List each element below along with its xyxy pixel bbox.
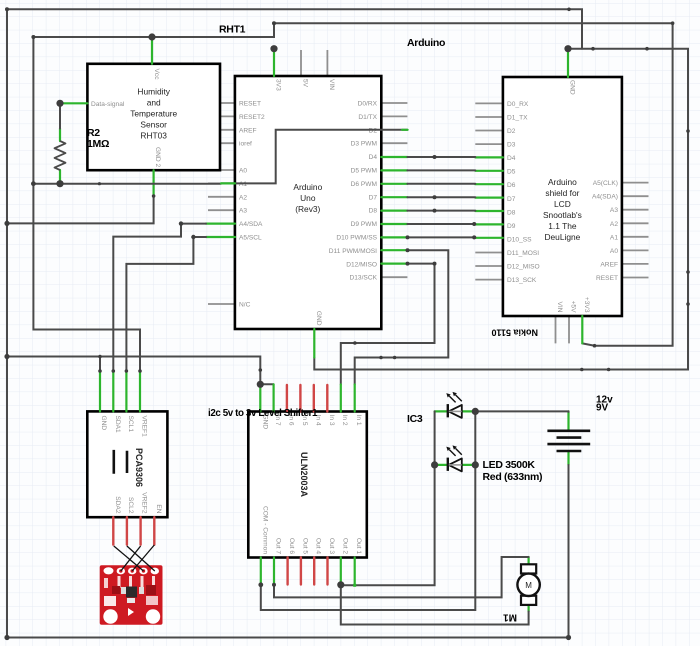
wire D2 to A1 crossing arduino body (221, 130, 407, 184)
wire GND branch to RHT03 GND2 (7, 196, 154, 223)
svg-text:LCD: LCD (554, 199, 571, 209)
wire 3V3 net RHT1 rail (33, 23, 672, 346)
svg-text:Vcc: Vcc (153, 69, 160, 81)
svg-text:SDA2: SDA2 (114, 496, 121, 514)
svg-text:D11_MOSI: D11_MOSI (507, 250, 539, 257)
svg-text:D5 PWM: D5 PWM (351, 168, 377, 175)
red stub ULN In3 (326, 385, 328, 412)
svg-text:Out 2: Out 2 (341, 538, 348, 554)
svg-text:D9: D9 (507, 223, 516, 230)
svg-text:D11 PWM/MOSI: D11 PWM/MOSI (329, 248, 377, 255)
wire D4 row (381, 156, 503, 159)
svg-text:ioref: ioref (239, 141, 252, 148)
breakout board PCA9306 module (100, 565, 163, 625)
svg-text:Snootlab's: Snootlab's (543, 210, 582, 220)
red stub PCA EN (153, 517, 155, 545)
svg-text:RHT03: RHT03 (140, 131, 167, 141)
battery 9V (547, 411, 590, 465)
wire green stub ULN GND pin (259, 384, 261, 411)
svg-text:D3: D3 (507, 142, 516, 149)
svg-text:D0_RX: D0_RX (507, 101, 529, 108)
svg-text:PCA9306: PCA9306 (134, 448, 144, 487)
green wire end marker on D2 (402, 129, 408, 131)
wire resistor top drop (59, 103, 61, 128)
svg-text:and: and (147, 98, 161, 108)
wire battery plus drop (568, 410, 570, 413)
arduino top/bottom rotated pin labels (275, 79, 335, 326)
arduino U-board left pin stubs (208, 103, 235, 304)
wire Out7 to motor plus (274, 557, 529, 597)
IC2 ULN2003A body (248, 412, 366, 558)
ratsnest SDA2 to board (114, 546, 144, 571)
svg-text:D4: D4 (507, 155, 516, 162)
wire green stub arduino 3V3 pin (273, 49, 275, 76)
svg-text:D1_TX: D1_TX (507, 115, 528, 122)
svg-text:In 1: In 1 (355, 415, 362, 426)
wire 3V3 left drop to VREF1 (33, 37, 140, 371)
wire green stub ULN Out2 pin (340, 558, 342, 585)
svg-text:Data-signal: Data-signal (91, 101, 125, 108)
wire green stub LCD +3V3 pin (581, 316, 583, 343)
svg-text:(Rev3): (Rev3) (295, 204, 320, 214)
svg-text:COM - Common: COM - Common (261, 506, 268, 554)
svg-text:D8: D8 (507, 209, 516, 216)
svg-text:+3V3: +3V3 (583, 297, 590, 313)
svg-text:1.1 The: 1.1 The (548, 221, 577, 231)
arduino right pin stubs (unconnected gray) (381, 103, 407, 277)
svg-text:D9 PWM: D9 PWM (351, 221, 377, 228)
wire green stub PCA VREF1 pin (139, 371, 141, 411)
svg-text:AREF: AREF (600, 261, 618, 268)
svg-text:M1: M1 (503, 612, 517, 623)
svg-text:5V: 5V (302, 79, 309, 88)
svg-text:GND: GND (315, 311, 322, 326)
LCD shield left pin stubs (unconnected gray) (475, 103, 503, 279)
svg-text:Out 1: Out 1 (355, 538, 362, 554)
wire SDA net from A4 (206, 223, 235, 225)
svg-text:D1/TX: D1/TX (358, 114, 377, 121)
red stub ULN Out3 (326, 558, 328, 585)
svg-text:A3: A3 (610, 207, 618, 214)
svg-text:D10 PWM/SS: D10 PWM/SS (336, 235, 377, 242)
red stub ULN Out6 (286, 558, 288, 585)
wire LED1 anode to battery plus (475, 410, 568, 412)
svg-text:Arduino: Arduino (407, 37, 445, 49)
red stub ULN In4 (313, 385, 315, 412)
svg-text:D4: D4 (369, 154, 378, 161)
red stub PCA VREF2 (139, 517, 141, 545)
svg-text:GND: GND (100, 416, 107, 431)
svg-text:A2: A2 (610, 221, 618, 228)
LED IC3 lower (Red 633nm) (435, 445, 476, 471)
wire D8 row (381, 210, 503, 213)
wire green stub ULN Out1 pin (354, 558, 356, 585)
svg-text:+5V: +5V (570, 301, 577, 314)
wire green stub ULN In1 pin (354, 385, 356, 412)
wire D12 to ULN In2 (381, 263, 407, 265)
wire green stub PCA GND pin (99, 371, 101, 411)
svg-text:A5/SCL: A5/SCL (239, 235, 262, 242)
svg-text:GND: GND (569, 80, 576, 95)
svg-text:A4/SDA: A4/SDA (239, 221, 263, 228)
wire Out2 to LED cathode column (341, 411, 435, 585)
ratsnest EN to board (132, 545, 154, 571)
svg-text:SCL1: SCL1 (127, 416, 134, 433)
wire green stub ULN In7 pin (273, 384, 275, 411)
LCD shield right pin stubs (622, 183, 649, 278)
sensor RHT1 (RHT03) body (87, 64, 220, 170)
svg-text:SDA1: SDA1 (114, 416, 121, 434)
svg-text:Arduino: Arduino (548, 177, 577, 187)
svg-text:shield for: shield for (545, 188, 579, 198)
svg-text:Red (633nm): Red (633nm) (483, 471, 543, 483)
svg-text:D8: D8 (369, 208, 378, 215)
svg-text:i2c 5v to 3v Level Shifter1: i2c 5v to 3v Level Shifter1 (208, 408, 318, 419)
svg-text:Nokia 5110: Nokia 5110 (491, 328, 538, 338)
wire green stub arduino A1 pin (221, 182, 235, 184)
wire SCL net from A5 (206, 236, 235, 238)
wire green stub ULN In2 pin (340, 385, 342, 412)
red stub ULN Out4 (313, 558, 315, 585)
svg-text:Out 7: Out 7 (275, 538, 282, 554)
ratsnest VREF2 to board (121, 546, 141, 571)
svg-text:A0: A0 (239, 168, 247, 175)
svg-text:GND 2: GND 2 (154, 147, 161, 167)
IC LCD shield body (503, 77, 622, 316)
svg-text:In 3: In 3 (328, 415, 335, 426)
red stub ULN Out5 (300, 558, 302, 585)
wire green stub LCD GND top pin (567, 49, 569, 77)
svg-text:A0: A0 (610, 248, 618, 255)
svg-text:A2: A2 (239, 194, 247, 201)
svg-text:Humidity: Humidity (137, 87, 170, 97)
svg-text:A3: A3 (239, 208, 247, 215)
svg-text:RESET: RESET (596, 275, 618, 282)
svg-text:Arduino: Arduino (293, 182, 322, 192)
red stub PCA SDA2 (112, 517, 114, 545)
svg-text:Temperature: Temperature (130, 109, 177, 119)
wire Out2 to motor minus (341, 585, 529, 625)
wire D5 row (381, 169, 503, 172)
arduino left pin labels (239, 101, 265, 309)
LCD shield bottom pin stubs VIN +5V (556, 316, 570, 343)
svg-text:D12/MISO: D12/MISO (346, 261, 377, 268)
wire PCA GND drop from rail (99, 357, 101, 372)
wire D11 to ULN In1 (381, 249, 407, 251)
svg-text:Out 4: Out 4 (315, 538, 322, 554)
IC Arduino Uno body (235, 76, 381, 329)
svg-text:Out 6: Out 6 (288, 538, 295, 554)
motor M1 (517, 557, 539, 612)
wire GND left rail (7, 9, 569, 637)
svg-text:EN: EN (155, 504, 162, 513)
wire D9 row (381, 223, 503, 226)
svg-text:D3 PWM: D3 PWM (351, 141, 377, 148)
svg-text:Out 3: Out 3 (328, 538, 335, 554)
arduino right pin labels (329, 101, 378, 282)
wire D6 row (381, 183, 503, 186)
svg-text:VIN: VIN (328, 79, 335, 90)
svg-text:A1: A1 (610, 234, 618, 241)
svg-text:Uno: Uno (300, 193, 316, 203)
svg-text:D13_SCK: D13_SCK (507, 277, 537, 284)
svg-text:D12_MISO: D12_MISO (507, 264, 540, 271)
wire green stub RHT03 Vcc pin (151, 37, 153, 64)
svg-text:In 2: In 2 (341, 415, 348, 426)
svg-text:IC3: IC3 (407, 413, 423, 425)
svg-text:SCL2: SCL2 (127, 497, 134, 514)
svg-text:N/C: N/C (239, 302, 251, 309)
svg-text:LED 3500K: LED 3500K (483, 459, 536, 471)
LCD right pin labels (592, 180, 618, 282)
svg-text:9V: 9V (596, 403, 609, 414)
ratsnest SCL2 to board (127, 546, 155, 571)
arduino top pin stubs 5V VIN (301, 50, 327, 76)
wire COM to LED anode column (261, 411, 476, 610)
wire GND upper-right rail to LCD GND (314, 49, 688, 370)
svg-text:D0/RX: D0/RX (358, 101, 378, 108)
svg-text:3V3: 3V3 (275, 79, 282, 91)
svg-text:RHT1: RHT1 (219, 24, 246, 36)
wire resistor top to Data-signal (60, 102, 87, 104)
wire GND branch to ULN GND/In7 (7, 357, 274, 385)
IC PCA9306 body (87, 411, 167, 517)
svg-text:1MΩ: 1MΩ (87, 138, 109, 150)
LED IC3 upper (435, 392, 476, 418)
svg-text:M: M (525, 581, 532, 590)
svg-text:D6: D6 (507, 182, 516, 189)
LCD top/bottom rotated pin labels (556, 80, 590, 313)
wire D7 row (381, 196, 503, 199)
red stub ULN In6 (286, 385, 288, 412)
red stub ULN In5 (299, 385, 301, 412)
svg-text:VREF2: VREF2 (141, 492, 148, 514)
wire GND top rail (7, 9, 582, 48)
svg-text:VREF1: VREF1 (141, 416, 148, 438)
red stub PCA SCL2 (126, 517, 128, 545)
wire battery minus to bottom rail (568, 465, 570, 638)
wire green stub PCA SDA1 pin (112, 371, 114, 411)
svg-text:AREF: AREF (239, 127, 257, 134)
svg-text:D7: D7 (369, 194, 378, 201)
resistor R2 (55, 129, 66, 184)
svg-text:Out 5: Out 5 (301, 538, 308, 554)
wire green stub arduino GND bottom pin (313, 329, 315, 358)
LCD left pin labels (507, 101, 540, 284)
svg-text:DeuLigne: DeuLigne (544, 232, 580, 242)
green wire-end marker Out1 (353, 584, 356, 587)
svg-text:D6 PWM: D6 PWM (351, 181, 377, 188)
wire green stub RHT03 GND2 pin (153, 170, 155, 196)
svg-text:D5: D5 (507, 169, 516, 176)
svg-text:Sensor: Sensor (140, 120, 167, 130)
svg-text:A5(CLK): A5(CLK) (593, 180, 618, 187)
svg-text:D2: D2 (507, 128, 516, 135)
svg-text:VIN: VIN (556, 302, 563, 313)
svg-text:D7: D7 (507, 196, 516, 203)
svg-text:D10_SS: D10_SS (507, 236, 532, 243)
svg-text:RESET: RESET (239, 101, 261, 108)
svg-text:RESET2: RESET2 (239, 114, 265, 121)
wire green stub ULN COM pin (260, 558, 262, 585)
svg-text:ULN2003A: ULN2003A (299, 452, 309, 498)
wire data net A1 row (33, 183, 221, 185)
wire green stub PCA SCL1 pin (125, 371, 127, 411)
wire D10 row (381, 236, 503, 239)
wire green stub ULN Out7 pin (273, 558, 275, 585)
svg-text:A4(SDA): A4(SDA) (592, 194, 618, 201)
svg-text:D13/SCK: D13/SCK (350, 275, 378, 282)
